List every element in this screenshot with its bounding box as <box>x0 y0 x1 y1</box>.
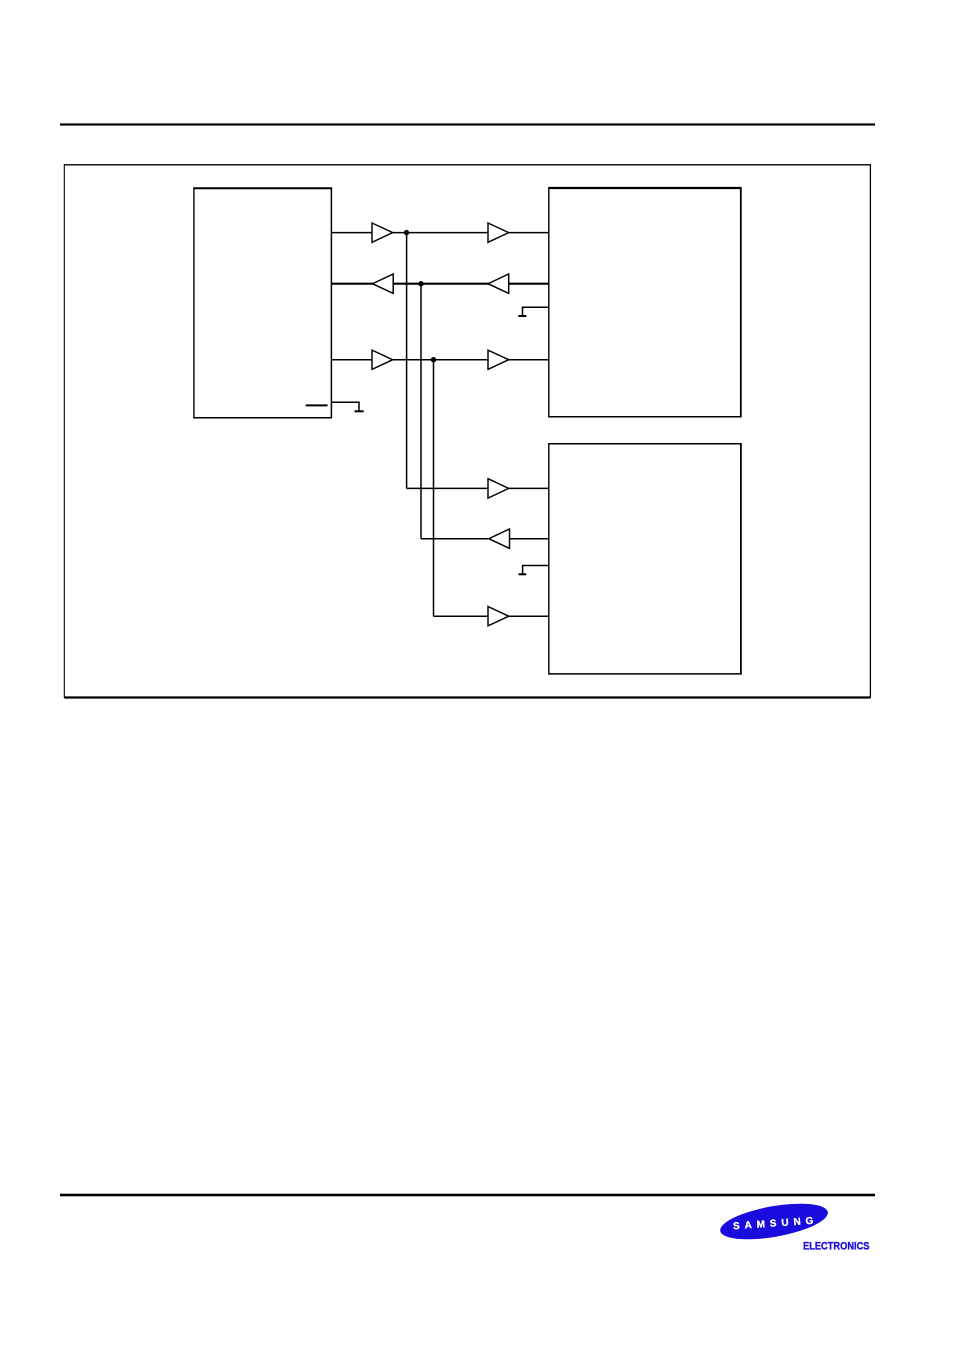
svg-text:ELECTRONICS: ELECTRONICS <box>803 1241 870 1253</box>
